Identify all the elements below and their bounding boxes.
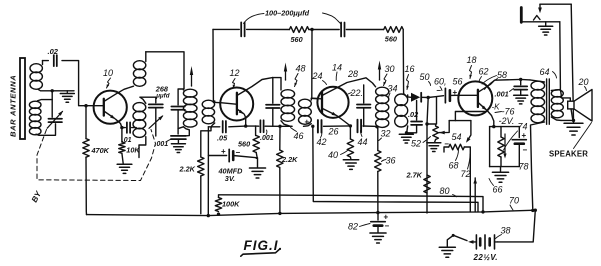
potentiometer 54 element bbox=[449, 144, 465, 150]
wire 36 to bottom rail bbox=[377, 172, 379, 213]
resistor 470K lead bbox=[85, 106, 87, 139]
switch arrow bbox=[468, 240, 474, 244]
wire 2.2K to bottom rail bbox=[200, 176, 202, 214]
wire .01 to osc coil bbox=[132, 127, 137, 129]
wire primary-top to cap .02 bbox=[43, 60, 49, 62]
wiper 72 arrowhead on drop bbox=[473, 178, 477, 184]
svg-text:58: 58 bbox=[497, 70, 507, 80]
leader for 10 bbox=[107, 78, 111, 88]
wire bias line 80 bbox=[219, 195, 484, 212]
svg-text:100–200μμfd: 100–200μμfd bbox=[265, 9, 310, 18]
svg-text:34: 34 bbox=[388, 84, 398, 94]
svg-text:-2V.: -2V. bbox=[499, 116, 515, 126]
svg-text:68: 68 bbox=[449, 161, 459, 171]
svg-text:42: 42 bbox=[317, 137, 327, 147]
leaders for 58 bbox=[482, 76, 497, 85]
svg-text:60,: 60, bbox=[434, 77, 447, 87]
svg-text:78: 78 bbox=[519, 162, 529, 172]
ground detector bbox=[405, 133, 407, 134]
node 2.2K second at rail bbox=[278, 212, 281, 215]
svg-text:+: + bbox=[384, 213, 389, 222]
transistor Q10 base bar bbox=[103, 99, 105, 116]
svg-text:44: 44 bbox=[358, 137, 368, 147]
svg-text:22.: 22. bbox=[350, 88, 364, 98]
wire 44 to IF3 bottom node bbox=[363, 125, 378, 127]
svg-text:38: 38 bbox=[501, 226, 511, 236]
svg-text:+: + bbox=[221, 147, 226, 156]
wire T64 secondary bottom to speaker node bbox=[561, 119, 574, 121]
wire jack right drop to speaker node bbox=[571, 4, 573, 119]
jack break contact caret bbox=[534, 16, 541, 21]
svg-text:14: 14 bbox=[332, 63, 342, 73]
svg-text:36: 36 bbox=[386, 156, 396, 166]
svg-text:.02: .02 bbox=[408, 110, 418, 119]
wire wiper bias staircase bbox=[449, 120, 471, 122]
resistor 2.2K (first) bbox=[198, 157, 204, 176]
wire IF1 top to padder bbox=[178, 89, 184, 105]
wire reflex node down to 2.2K second bbox=[279, 126, 281, 150]
svg-text:50: 50 bbox=[420, 72, 430, 82]
svg-text:62: 62 bbox=[479, 67, 489, 77]
svg-text:16: 16 bbox=[405, 64, 415, 74]
svg-text:66: 66 bbox=[493, 185, 503, 195]
svg-text:2.2K: 2.2K bbox=[281, 155, 298, 164]
wire switch to ground bbox=[447, 235, 453, 246]
wire T1 secondary to Q12 base bbox=[213, 102, 236, 104]
IF T3 parallel capacitor bbox=[363, 85, 365, 103]
jack wire and contact bbox=[521, 21, 560, 23]
svg-text:10: 10 bbox=[103, 68, 113, 78]
capacitor .001 collector bbox=[520, 79, 522, 84]
svg-text:64: 64 bbox=[540, 67, 550, 77]
svg-text:32: 32 bbox=[381, 129, 391, 139]
ground resistor 40 bbox=[343, 159, 358, 161]
leader to left cap bbox=[244, 14, 265, 24]
IF transformer T3 primary bbox=[376, 87, 389, 96]
IF transformer T1 secondary bbox=[202, 100, 214, 108]
svg-text:72: 72 bbox=[461, 169, 471, 179]
ground .001 collector bbox=[514, 94, 528, 96]
IF T1 tuning core arrow bbox=[191, 72, 193, 86]
capacitor .001 coupling bbox=[259, 120, 261, 132]
wire IF1 primary bottom to .001 bbox=[183, 127, 189, 136]
svg-text:54: 54 bbox=[452, 132, 462, 142]
ground jack bbox=[545, 22, 547, 26]
svg-text:46: 46 bbox=[294, 131, 304, 141]
resistor 100K bbox=[215, 198, 221, 212]
svg-text:24: 24 bbox=[312, 71, 323, 81]
wire 2.2K second to bottom rail bbox=[279, 168, 281, 214]
wire T3 secondary to diode bbox=[407, 96, 412, 99]
svg-text:−: − bbox=[236, 148, 241, 157]
ground 40MFD/560 bbox=[249, 167, 265, 169]
caption underline bbox=[241, 249, 280, 256]
transistor Q10 body bbox=[94, 91, 127, 124]
wire top line left drop to Q12 base bbox=[212, 29, 214, 102]
transistor Q12 collector lead bbox=[237, 78, 273, 96]
capacitor .01 wire bbox=[122, 127, 125, 129]
bottom rail 70 bbox=[87, 210, 536, 215]
wire reflex node to T2 primary bottom bbox=[280, 125, 292, 127]
ground emitter cell bbox=[500, 167, 502, 172]
capacitor .001 (osc) bbox=[171, 135, 186, 137]
svg-text:.02: .02 bbox=[48, 47, 59, 56]
svg-text:30: 30 bbox=[385, 64, 395, 74]
transistor Q10 emitter lead bbox=[104, 111, 115, 119]
resistor 40 bbox=[347, 139, 353, 157]
transistor Q18 collector lead bbox=[478, 79, 521, 92]
wire jack contact drop to T64 secondary bbox=[559, 22, 562, 89]
wire tuning node down bbox=[51, 91, 53, 117]
resistor 74 (auto bias) bbox=[498, 137, 504, 157]
wire diode to detector node bbox=[421, 96, 428, 98]
dashed gang line from tuning cap bbox=[37, 130, 156, 181]
wire IF3 bottom to 36 bbox=[377, 129, 379, 151]
output transformer T64 primary bbox=[531, 81, 545, 90]
svg-text:56: 56 bbox=[453, 77, 463, 87]
transistor Q18 body bbox=[458, 81, 492, 115]
svg-text:-K: -K bbox=[492, 103, 501, 112]
leader to right cap bbox=[323, 13, 341, 24]
node 100K at rail bbox=[217, 213, 220, 216]
variable capacitor 268 uufd bbox=[149, 103, 163, 105]
leader for 18 bbox=[470, 66, 472, 79]
wire pot54 left stub bbox=[444, 147, 449, 152]
node detector output bbox=[427, 96, 430, 99]
resistor 2.7K bbox=[424, 175, 430, 193]
svg-text:28: 28 bbox=[347, 69, 358, 79]
svg-text:560: 560 bbox=[385, 35, 397, 44]
svg-text:52: 52 bbox=[411, 139, 421, 149]
node line80 at rail bbox=[481, 210, 484, 213]
ground Q10 emitter bbox=[117, 163, 132, 165]
svg-text:SPEAKER: SPEAKER bbox=[549, 149, 588, 158]
ground pot 52 bbox=[435, 140, 436, 143]
speaker 20 horn bbox=[574, 90, 592, 122]
svg-text:.001: .001 bbox=[155, 141, 169, 148]
resistor 10K bbox=[121, 128, 123, 142]
transistor Q24 emitter lead bbox=[322, 108, 336, 115]
switch lever bbox=[453, 235, 467, 240]
wire cap .02 to base node bbox=[62, 61, 103, 106]
transistor Q24 base lead bbox=[311, 97, 322, 99]
IF transformer T1 primary bbox=[182, 88, 185, 90]
svg-text:80: 80 bbox=[440, 186, 450, 196]
node speaker return bbox=[572, 119, 575, 122]
node volume pot tap bbox=[425, 122, 428, 125]
node Q24 emitter bbox=[349, 124, 352, 127]
node reflex junction bbox=[278, 125, 281, 128]
diode 16 bbox=[411, 93, 420, 102]
wire det node to pot top bbox=[427, 124, 436, 126]
node 36/82 at rail bbox=[376, 211, 379, 214]
output transformer T64 core bbox=[546, 79, 548, 124]
node top line junction bbox=[309, 29, 339, 31]
ground battery switch bbox=[439, 246, 455, 248]
wire bus 560 to .001 coupling bbox=[256, 125, 259, 127]
resistor 560 (top second) bbox=[384, 27, 404, 33]
capacitor 56 electrolytic bbox=[444, 88, 446, 103]
svg-text:BAR ANTENNA: BAR ANTENNA bbox=[9, 75, 18, 137]
wire T1 secondary bottom to 2.2K bbox=[201, 128, 211, 157]
wire top feedback line left bbox=[213, 28, 239, 30]
wire osc top to varcap 268 bbox=[140, 97, 156, 103]
wire .05 column down bbox=[207, 127, 209, 216]
svg-text:2.7K: 2.7K bbox=[406, 171, 423, 180]
svg-text:560: 560 bbox=[291, 35, 303, 44]
svg-text:470K: 470K bbox=[91, 146, 110, 155]
svg-text:−: − bbox=[523, 146, 528, 155]
output transformer T64 secondary bbox=[551, 90, 563, 97]
ground .001 osc bbox=[177, 139, 179, 143]
resistor 560 (top first) bbox=[289, 27, 308, 33]
transistor Q18 base bar bbox=[477, 90, 479, 107]
wire emitter cell bottom bbox=[490, 166, 520, 168]
wire cap 56 to Q18 base bbox=[450, 94, 477, 96]
IF T2 top node wire bbox=[273, 78, 282, 90]
svg-text:40: 40 bbox=[328, 150, 338, 160]
IF T3 tuning core arrow bbox=[379, 67, 381, 81]
wire collector to T64 primary bbox=[521, 78, 530, 81]
svg-text:.05: .05 bbox=[217, 134, 228, 143]
antenna secondary coil bbox=[29, 101, 41, 108]
node base of Q10 bbox=[84, 104, 87, 107]
transistor Q12 base bar bbox=[236, 93, 238, 114]
wire AVC drop from bus bbox=[313, 126, 478, 212]
IF transformer T2 primary bbox=[281, 90, 295, 98]
battery 82 stem bbox=[377, 213, 379, 220]
wire bus .05 to emitter node bbox=[229, 125, 246, 128]
transistor Q10 collector lead bbox=[104, 86, 134, 101]
svg-text:.001: .001 bbox=[260, 135, 274, 142]
pot 54 wiper arrow bbox=[468, 121, 471, 141]
osc coil upper winding bbox=[133, 61, 145, 70]
wire rail to battery 38 bbox=[498, 210, 536, 242]
resistor 470K bbox=[83, 139, 89, 158]
node emitter cell bbox=[492, 125, 495, 128]
capacitor 100-200 left bbox=[240, 22, 242, 36]
wire bias bus left segment bbox=[208, 126, 219, 128]
transistor Q12 emitter lead bbox=[237, 109, 244, 114]
node .02 ground junction bbox=[405, 131, 408, 134]
node rail right end bbox=[534, 209, 537, 212]
leader for 30 bbox=[384, 74, 388, 86]
capacitor 42 electrolytic bbox=[317, 120, 319, 133]
wire 42 to emitter node Q24 bbox=[324, 125, 351, 127]
leader SPEAKER bbox=[574, 123, 592, 149]
capacitor .05 bbox=[222, 121, 224, 133]
antenna primary coil L-top bbox=[30, 64, 42, 73]
wire padder to .001 node bbox=[177, 110, 179, 134]
resistor 40 lead bbox=[349, 126, 351, 139]
wire cell left side bbox=[489, 127, 491, 167]
svg-text:−: − bbox=[436, 86, 441, 95]
svg-text:+: + bbox=[522, 131, 527, 140]
battery 38 bbox=[494, 235, 496, 249]
wire junction drop to Q24 base bbox=[311, 30, 313, 98]
transistor Q12 body bbox=[220, 88, 253, 121]
svg-text:3V.: 3V. bbox=[225, 174, 235, 183]
capacitor 100-200 right bbox=[340, 23, 342, 37]
svg-text:−: − bbox=[385, 222, 390, 231]
svg-text:10K: 10K bbox=[126, 145, 140, 154]
ground speaker bbox=[573, 120, 575, 123]
node .05 column at rail bbox=[207, 214, 210, 217]
svg-text:22½V.: 22½V. bbox=[473, 253, 498, 262]
wire detector node down to volume pot bbox=[427, 98, 428, 214]
capacitor 78 electrolytic bbox=[518, 127, 520, 138]
pot 52 wiper arrow bbox=[439, 131, 445, 135]
svg-text:μμfd: μμfd bbox=[155, 93, 170, 100]
resistor 560 (emitter) bbox=[255, 126, 257, 135]
resistor 100K lead bbox=[218, 196, 220, 198]
battery 82 bbox=[371, 221, 385, 223]
svg-text:82: 82 bbox=[348, 222, 358, 232]
node primary-bottom junction bbox=[51, 89, 54, 92]
bar antenna body bbox=[20, 58, 25, 139]
resistor 36 bbox=[375, 151, 381, 172]
wire top rail to IF1 bbox=[146, 52, 184, 88]
osc coil lower winding bbox=[133, 103, 146, 112]
wire 470K to bottom rail bbox=[85, 157, 88, 214]
wire right cap to 560 bbox=[346, 29, 383, 31]
wire bus emitter to 560 bbox=[246, 125, 256, 127]
svg-text:.001: .001 bbox=[495, 90, 509, 99]
transistor Q24 base bar bbox=[321, 92, 323, 113]
wire .001 to reflex node bbox=[265, 125, 280, 127]
ground battery 82 bbox=[377, 226, 379, 233]
resistor 2.2K (second) bbox=[277, 150, 283, 168]
capacitor .02 bbox=[53, 55, 55, 66]
arrow through 74 bbox=[504, 134, 506, 156]
wire 560 down to diode node bbox=[403, 30, 406, 97]
svg-text:-76: -76 bbox=[502, 107, 515, 117]
jack plug bar bbox=[520, 8, 523, 23]
jack top wire with arrow bbox=[540, 3, 571, 5]
IF T2 tuning core arrow bbox=[285, 69, 287, 81]
variable capacitor (tuning gang section 1) bbox=[48, 118, 62, 120]
svg-text:+: + bbox=[305, 117, 310, 126]
node emitter Q10 bbox=[120, 126, 123, 129]
wire T64 secondary top to speaker bbox=[560, 90, 570, 102]
svg-text:2.2K: 2.2K bbox=[179, 165, 196, 174]
node Q12 emitter on bus bbox=[244, 124, 247, 127]
capacitor .02 detector bbox=[416, 101, 418, 121]
transistor Q18 emitter lead bbox=[478, 102, 486, 110]
leader for 48 bbox=[295, 74, 299, 87]
transistor Q24 collector lead bbox=[322, 78, 376, 96]
ground antenna bbox=[66, 91, 68, 93]
svg-text:48: 48 bbox=[296, 64, 306, 74]
svg-text:26: 26 bbox=[328, 127, 339, 137]
IF transformer T3 secondary bbox=[395, 94, 408, 106]
capacitor padder bbox=[171, 106, 185, 108]
wire detector to cap 56 bbox=[428, 96, 443, 98]
svg-text:18: 18 bbox=[467, 55, 477, 65]
speaker 20 driver bbox=[568, 101, 574, 109]
IF transformer T2 secondary bbox=[299, 99, 312, 108]
leader for 16 bbox=[407, 75, 409, 90]
svg-text:12: 12 bbox=[230, 68, 240, 78]
wire pot54 right to 72 drop bbox=[464, 147, 470, 212]
svg-text:20: 20 bbox=[578, 77, 589, 87]
wire emitter cell top bbox=[490, 126, 520, 128]
leader for 12 bbox=[233, 79, 236, 89]
wire between caps with 560 bbox=[247, 28, 290, 30]
node AVC at bus bbox=[311, 125, 314, 128]
capacitor .01 bbox=[126, 122, 128, 133]
node collector .001 bbox=[519, 78, 522, 81]
transistor Q24 body bbox=[317, 87, 348, 118]
capacitor 40MFD electrolytic bbox=[208, 155, 226, 157]
capacitor 44 bbox=[357, 120, 359, 133]
potentiometer 52 element bbox=[433, 126, 439, 140]
IF T2 parallel capacitor bbox=[272, 78, 274, 104]
svg-text:100K: 100K bbox=[222, 200, 240, 209]
svg-text:70: 70 bbox=[509, 196, 519, 206]
speaker 20 bottom stub bbox=[571, 109, 573, 120]
